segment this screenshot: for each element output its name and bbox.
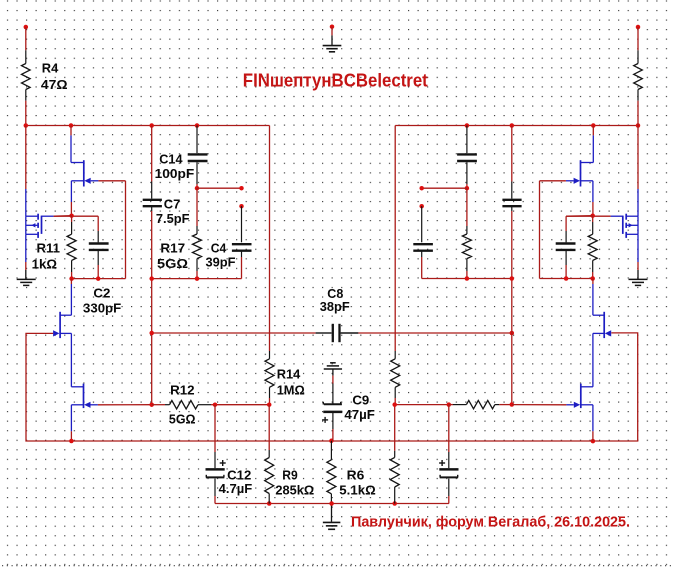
junction <box>69 213 74 218</box>
wire <box>98 404 152 406</box>
wire <box>214 405 216 452</box>
svg-text:FINшептунBCBelectret: FINшептунBCBelectret <box>243 70 428 91</box>
capacitor C14 <box>188 126 208 189</box>
wire <box>448 496 450 504</box>
wire <box>422 187 467 189</box>
svg-text:R17: R17 <box>160 240 185 255</box>
svg-text:R14: R14 <box>277 366 301 381</box>
junction <box>447 402 452 407</box>
wire <box>395 404 449 406</box>
junction <box>149 331 154 336</box>
junction <box>69 123 74 128</box>
junction <box>590 276 595 281</box>
junction <box>465 276 470 281</box>
note text <box>351 515 630 531</box>
transistor Q2 (JFET upper-left) <box>71 135 98 186</box>
transistor Q5 (MOSFET right) <box>623 214 638 238</box>
wire <box>592 126 594 136</box>
label R6 value 5.1kΩ <box>339 482 375 497</box>
label C12 value 4.7µF <box>219 481 253 496</box>
wire <box>637 126 639 190</box>
wire top bus left <box>26 125 270 127</box>
wire <box>611 215 623 217</box>
node ground stub <box>330 24 335 29</box>
junction <box>591 439 596 444</box>
svg-text:100pF: 100pF <box>155 166 195 181</box>
svg-text:1MΩ: 1MΩ <box>277 382 305 397</box>
wire <box>592 431 594 441</box>
wire <box>25 234 27 262</box>
wire feedback bus <box>26 333 638 441</box>
wire <box>97 216 99 231</box>
wire <box>592 202 594 216</box>
wire <box>358 332 511 334</box>
svg-text:7.5pF: 7.5pF <box>156 211 190 226</box>
wire top bus right <box>395 125 638 127</box>
junction <box>213 402 218 407</box>
wire <box>152 278 242 280</box>
capacitor C12 <box>206 452 226 496</box>
resistor R17 <box>193 188 202 278</box>
resistor R6 <box>327 441 336 504</box>
wire <box>565 265 567 279</box>
wire <box>70 202 72 216</box>
junction <box>510 123 515 128</box>
label C12 <box>227 467 251 482</box>
svg-text:R4: R4 <box>42 61 59 76</box>
wire <box>54 215 98 217</box>
wire <box>70 279 72 284</box>
transistor Q3 (JFET lower-left) <box>53 284 71 387</box>
wire <box>566 215 593 218</box>
title text <box>243 70 428 91</box>
resistor (mirror of R11) <box>588 216 597 279</box>
wire <box>151 126 153 182</box>
ground left <box>17 270 36 285</box>
svg-text:C14: C14 <box>159 151 183 166</box>
wire <box>70 181 72 202</box>
transistor Q1 (MOSFET left) <box>26 214 42 238</box>
junction <box>69 276 74 281</box>
label R12 value 5GΩ <box>169 412 196 427</box>
wire <box>540 180 566 182</box>
label C7 value 7.5pF <box>156 211 190 226</box>
capacitor (mirror of C4) <box>413 206 433 257</box>
wire <box>54 215 72 218</box>
label C4 <box>211 240 227 255</box>
node top-left supply <box>24 25 29 30</box>
resistor (mirror of R4) <box>634 50 643 100</box>
capacitor (mirror of C12) <box>439 452 458 496</box>
junction <box>149 276 154 281</box>
capacitor (mirror of C14) <box>457 126 477 189</box>
junction <box>24 123 29 128</box>
label C9 value 47µF <box>344 407 375 422</box>
wire <box>25 189 27 216</box>
wire <box>637 262 639 270</box>
wire lower-left box bottom <box>72 278 126 280</box>
label R12 <box>170 383 195 398</box>
wire lower-right box bottom <box>540 278 593 280</box>
capacitor C7 <box>143 182 162 212</box>
resistor (mirror of R17) <box>462 188 471 278</box>
junction <box>465 123 470 128</box>
svg-text:47µF: 47µF <box>344 407 375 422</box>
junction <box>510 402 515 407</box>
capacitor C4 <box>232 206 252 257</box>
wire <box>637 189 639 216</box>
wire <box>70 431 72 441</box>
resistor R11 <box>67 216 76 279</box>
node top-right supply <box>636 25 641 30</box>
junction <box>195 276 200 281</box>
label R9 value 285kΩ <box>275 482 314 497</box>
junction <box>195 123 200 128</box>
wire <box>42 215 54 217</box>
label C8 value 38pF <box>320 299 350 314</box>
transistor Q7 (JFET lower-right) <box>593 284 611 387</box>
resistor (mirror of R12) <box>449 400 512 408</box>
svg-text:39pF: 39pF <box>206 254 236 269</box>
ground top-center <box>323 35 342 51</box>
wire <box>592 279 594 285</box>
svg-text:5GΩ: 5GΩ <box>169 412 196 427</box>
label C8 <box>327 286 343 301</box>
label R11 value 1kΩ <box>32 256 57 271</box>
wire <box>332 376 334 384</box>
svg-text:R12: R12 <box>170 383 195 398</box>
junction <box>564 276 569 281</box>
svg-text:C2: C2 <box>93 285 110 300</box>
wire <box>331 27 333 36</box>
svg-text:Павлунчик, форум Вегалаб, 26.1: Павлунчик, форум Вегалаб, 26.10.2025. <box>351 515 630 531</box>
junction <box>636 123 641 128</box>
ground bottom-center <box>323 504 341 530</box>
wire <box>637 101 639 126</box>
wire <box>565 216 567 231</box>
wire <box>421 257 423 279</box>
junction <box>69 439 74 444</box>
junction <box>149 123 154 128</box>
capacitor C8 <box>316 324 359 342</box>
node C4 top <box>239 204 244 209</box>
svg-text:4.7µF: 4.7µF <box>219 481 253 496</box>
wire <box>422 278 512 280</box>
node wire end <box>239 186 244 191</box>
label R17 <box>160 240 185 255</box>
junction <box>329 501 334 506</box>
svg-text:C7: C7 <box>164 197 181 212</box>
junction <box>195 186 200 191</box>
wire <box>70 126 72 136</box>
wire <box>98 180 125 182</box>
wire <box>539 181 541 279</box>
svg-text:47Ω: 47Ω <box>41 77 68 92</box>
wire <box>197 187 242 189</box>
svg-text:R9: R9 <box>282 467 298 482</box>
wire <box>269 126 271 352</box>
svg-text:5GΩ: 5GΩ <box>157 256 188 271</box>
capacitor C2 <box>89 231 109 265</box>
label R17 value 5GΩ <box>157 256 188 271</box>
junction <box>96 276 101 281</box>
ground (flipped) above C9 <box>324 363 342 376</box>
svg-text:285kΩ: 285kΩ <box>275 482 314 497</box>
resistor R14 <box>265 351 274 405</box>
wire <box>511 126 513 182</box>
label C9 <box>352 392 369 407</box>
resistor R12 <box>152 401 215 409</box>
junction <box>591 123 596 128</box>
svg-text:C4: C4 <box>211 240 227 255</box>
label C2 value 330pF <box>83 301 121 316</box>
wire <box>151 211 153 405</box>
wire <box>592 181 594 202</box>
junction <box>149 402 154 407</box>
label C2 <box>93 285 110 300</box>
capacitor C9 <box>322 384 342 430</box>
junction <box>510 276 515 281</box>
wire <box>512 404 567 406</box>
label C14 value 100pF <box>155 166 195 181</box>
wire <box>97 265 99 279</box>
wire <box>152 332 316 334</box>
junction <box>392 402 397 407</box>
label R14 <box>277 366 301 381</box>
transistor Q4 (JFET left lower) <box>71 384 98 432</box>
node capacitor top <box>419 204 424 209</box>
node wire end <box>419 186 424 191</box>
junction <box>267 501 272 506</box>
junction <box>392 501 397 506</box>
label R9 <box>282 467 298 482</box>
resistor (mirror of R9) <box>390 405 399 504</box>
wire bottom bus <box>215 503 449 505</box>
wire <box>394 126 396 352</box>
wire <box>637 234 639 262</box>
wire <box>125 181 127 279</box>
svg-text:R6: R6 <box>347 467 365 482</box>
wire <box>214 496 216 504</box>
svg-text:C9: C9 <box>352 392 369 407</box>
resistor R9 <box>265 405 274 504</box>
dense dotted row at bottom edge <box>2 565 674 567</box>
label R14 value 1MΩ <box>277 382 305 397</box>
wire <box>25 126 27 190</box>
label R11 <box>37 240 61 255</box>
svg-text:38pF: 38pF <box>320 299 350 314</box>
wire <box>566 215 611 217</box>
wire <box>25 101 27 126</box>
wire <box>25 262 27 270</box>
label R4 <box>42 61 59 76</box>
junction <box>590 213 595 218</box>
junction <box>267 402 272 407</box>
svg-text:330pF: 330pF <box>83 301 121 316</box>
svg-text:5.1kΩ: 5.1kΩ <box>339 482 375 497</box>
wire <box>241 257 243 279</box>
wire <box>215 404 269 406</box>
transistor Q8 (JFET right lower) <box>566 384 593 432</box>
junction <box>465 186 470 191</box>
svg-text:R11: R11 <box>37 240 61 255</box>
junction <box>329 439 334 444</box>
label R6 <box>347 467 365 482</box>
wire <box>511 211 513 405</box>
wire <box>25 27 27 50</box>
junction <box>510 331 515 336</box>
wire <box>448 405 450 452</box>
resistor (mirror of R14) <box>391 351 400 405</box>
label C4 value 39pF <box>206 254 236 269</box>
label C7 <box>164 197 181 212</box>
resistor R4 <box>22 50 31 100</box>
capacitor (mirror of C2) <box>556 231 576 265</box>
wire <box>332 429 334 441</box>
ground right <box>629 270 648 285</box>
svg-text:1kΩ: 1kΩ <box>32 256 57 271</box>
wire <box>637 27 639 50</box>
label C14 <box>159 151 183 166</box>
capacitor (mirror of C7) <box>502 182 521 212</box>
label R4 value 47Ω <box>41 77 68 92</box>
transistor Q6 (JFET upper-right) <box>566 135 593 186</box>
